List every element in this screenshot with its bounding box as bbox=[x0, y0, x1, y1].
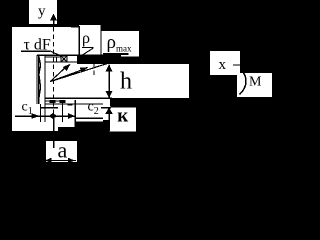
black flange bar bbox=[77, 55, 121, 65]
dF element square bbox=[61, 56, 67, 62]
web stress zigzag line bbox=[39, 55, 41, 100]
a dimension line bbox=[45, 160, 76, 162]
white label panel: mid left box bbox=[58, 27, 80, 122]
y axis arrowhead bbox=[50, 14, 57, 21]
centerline solid lower segment bbox=[53, 118, 55, 148]
step corner vertical line bbox=[78, 27, 80, 55]
white label panel: M box bbox=[237, 73, 272, 97]
moment arc bbox=[240, 71, 247, 95]
center diamond double arrowhead bbox=[49, 113, 57, 119]
h arrowhead top bbox=[106, 64, 113, 71]
h arrowhead bottom bbox=[106, 91, 113, 98]
tau dF underline bbox=[21, 50, 50, 52]
c2 mid extension line bbox=[62, 102, 64, 122]
stress fan line 2 bbox=[50, 70, 83, 82]
svg-text:M: M bbox=[249, 75, 262, 90]
white label panel: k box bbox=[110, 107, 137, 132]
svg-text:a: a bbox=[58, 138, 68, 163]
k dimension stem bbox=[108, 113, 110, 131]
c dimension line bbox=[15, 115, 75, 117]
rho leader diagonal bbox=[83, 48, 94, 55]
rho dashed drop line bbox=[93, 63, 95, 75]
white label panel: h box bbox=[79, 64, 189, 98]
svg-text:к: к bbox=[117, 106, 128, 127]
h dimension line bbox=[108, 65, 110, 98]
bottom flange tau blob 2 bbox=[60, 100, 66, 103]
web right line bbox=[44, 55, 46, 122]
white label panel: rho / rho_max top box bbox=[79, 25, 101, 55]
white label panel: c2 box bbox=[75, 96, 104, 122]
svg-text:ρ: ρ bbox=[82, 30, 90, 47]
web top line bbox=[37, 54, 78, 56]
web outer left line bbox=[36, 55, 38, 104]
flange top line bbox=[45, 56, 61, 58]
flange bottom line bbox=[45, 61, 78, 63]
k band (bottom flange) bbox=[111, 98, 160, 107]
flange cell line bbox=[56, 57, 58, 62]
white label panel: big left box bbox=[12, 27, 58, 131]
white label panel: y-axis box bbox=[29, 0, 57, 24]
rho underline bbox=[82, 46, 94, 48]
stress fan line 3 (radius to bar end) bbox=[50, 60, 120, 82]
y axis dashed centerline bbox=[53, 27, 55, 118]
web lower extension line bbox=[40, 104, 42, 122]
white label panel: a box bbox=[46, 141, 77, 162]
svg-text:h: h bbox=[120, 69, 132, 95]
k band bottom line bbox=[101, 107, 111, 109]
white label panel: x box bbox=[210, 51, 240, 75]
stress fan arrowhead 2 bbox=[80, 67, 89, 72]
bottom flange inner line 2 bbox=[45, 103, 103, 105]
c1 arrowhead bbox=[32, 113, 41, 119]
step corner horizontal line bbox=[71, 26, 80, 28]
c2 underline bbox=[75, 117, 103, 119]
bottom flange tau blob 3 bbox=[68, 104, 73, 106]
y axis stem bbox=[53, 18, 55, 26]
dF square diagonal 2 bbox=[61, 56, 67, 62]
bottom flange top line bbox=[45, 97, 112, 99]
bottom flange bottom line left bbox=[40, 107, 58, 109]
c2 extension line bbox=[74, 100, 76, 127]
a arrowhead right bbox=[68, 158, 75, 164]
a arrowhead left bbox=[45, 158, 52, 164]
bottom flange inner line 1 bbox=[45, 100, 61, 102]
white label panel: rho_max box bbox=[102, 31, 140, 57]
stress fan line 1 bbox=[50, 67, 66, 82]
web inner left line bbox=[38, 55, 40, 104]
c2 arrowhead bbox=[68, 113, 75, 119]
rho_max underline bbox=[103, 53, 129, 55]
bottom flange tau blob 1 bbox=[50, 100, 56, 103]
k arrowhead bbox=[105, 107, 113, 114]
stress fan arrowhead 1 bbox=[63, 64, 71, 71]
svg-text:y: y bbox=[38, 3, 46, 19]
x axis dash bbox=[233, 64, 241, 66]
white label panel: mid left box lower sliver bbox=[58, 122, 75, 128]
svg-text:x: x bbox=[219, 57, 227, 73]
white label panel: patch left of k band bbox=[100, 96, 110, 120]
tau dF leader line bbox=[50, 51, 67, 59]
dF square diagonal 1 bbox=[61, 56, 67, 62]
